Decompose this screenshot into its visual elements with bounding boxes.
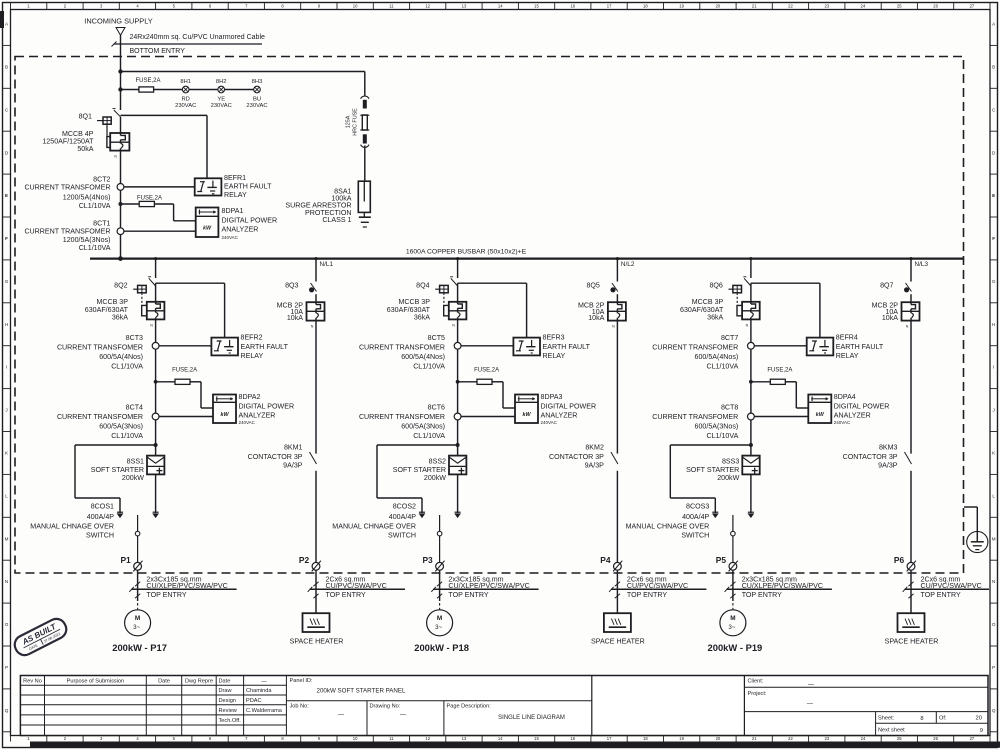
svg-text:FUSE,2A: FUSE,2A (172, 367, 197, 373)
svg-text:YE: YE (217, 97, 225, 103)
svg-text:Rev No: Rev No (23, 678, 42, 684)
svg-text:N/L2: N/L2 (621, 261, 635, 268)
svg-text:600/5A(3Nos): 600/5A(3Nos) (401, 423, 445, 431)
svg-text:CU/PVC/SWA/PVC: CU/PVC/SWA/PVC (627, 582, 688, 590)
svg-text:8Q7: 8Q7 (880, 282, 893, 290)
svg-text:P6: P6 (894, 555, 905, 565)
svg-text:50kA: 50kA (77, 145, 93, 153)
svg-text:CL1/10VA: CL1/10VA (79, 244, 111, 252)
svg-text:600/5A(4Nos): 600/5A(4Nos) (401, 353, 445, 361)
svg-text:CL1/10VA: CL1/10VA (413, 363, 445, 371)
svg-text:Tech.Off.: Tech.Off. (219, 718, 242, 724)
svg-text:24: 24 (861, 736, 866, 741)
svg-text:200kW - P17: 200kW - P17 (112, 642, 167, 653)
svg-text:P3: P3 (422, 555, 433, 565)
svg-text:Sheet:: Sheet: (878, 715, 895, 721)
svg-text:F: F (5, 236, 8, 241)
svg-text:B: B (5, 64, 8, 69)
svg-text:N: N (311, 325, 314, 329)
svg-text:P4: P4 (600, 555, 611, 565)
svg-text:36kA: 36kA (707, 314, 723, 322)
svg-text:TOP ENTRY: TOP ENTRY (448, 591, 488, 599)
svg-text:L: L (5, 493, 8, 498)
svg-text:SPACE HEATER: SPACE HEATER (290, 637, 344, 645)
svg-text:8DPA3: 8DPA3 (541, 393, 563, 401)
svg-text:240VAC: 240VAC (222, 235, 239, 240)
svg-text:M: M (5, 536, 9, 541)
svg-text:Project:: Project: (748, 691, 767, 697)
svg-text:8EFR4: 8EFR4 (836, 333, 858, 341)
svg-text:DIGITAL POWER: DIGITAL POWER (222, 217, 278, 225)
svg-text:HRC FUSE: HRC FUSE (353, 108, 359, 136)
svg-text:22: 22 (788, 736, 793, 741)
svg-text:13: 13 (462, 736, 467, 741)
svg-text:27: 27 (970, 4, 975, 9)
svg-text:E: E (5, 193, 8, 198)
svg-text:N: N (612, 325, 615, 329)
svg-text:25: 25 (897, 736, 902, 741)
svg-text:8: 8 (920, 716, 923, 722)
svg-text:M: M (437, 615, 442, 622)
svg-text:Client:: Client: (748, 679, 764, 685)
svg-text:125A: 125A (346, 115, 352, 128)
svg-text:1200/5A(4Nos): 1200/5A(4Nos) (63, 193, 111, 201)
svg-text:SOFT STARTER: SOFT STARTER (393, 466, 446, 474)
svg-text:CONTACTOR 3P: CONTACTOR 3P (248, 453, 303, 461)
svg-text:CURRENT TRANSFOMER: CURRENT TRANSFOMER (24, 228, 110, 236)
svg-text:—: — (338, 712, 345, 719)
svg-text:9: 9 (980, 728, 983, 734)
svg-text:26: 26 (933, 4, 938, 9)
svg-text:240VAC: 240VAC (834, 420, 851, 425)
svg-text:CURRENT TRANSFOMER: CURRENT TRANSFOMER (57, 344, 143, 352)
svg-text:26: 26 (933, 736, 938, 741)
svg-text:O: O (5, 622, 9, 627)
svg-text:200kW: 200kW (717, 474, 739, 482)
svg-text:FUSE,2A: FUSE,2A (474, 367, 499, 373)
svg-text:8EFR1: 8EFR1 (224, 174, 246, 182)
svg-text:CURRENT TRANSFOMER: CURRENT TRANSFOMER (24, 184, 110, 192)
svg-text:CU/XLPE/PVC/SWA/PVC: CU/XLPE/PVC/SWA/PVC (146, 582, 227, 590)
svg-text:SPACE HEATER: SPACE HEATER (591, 637, 645, 645)
svg-text:SWITCH: SWITCH (388, 532, 416, 540)
svg-text:ANALYZER: ANALYZER (541, 412, 578, 420)
svg-text:Chaminda: Chaminda (246, 688, 272, 694)
svg-text:INCOMING SUPPLY: INCOMING SUPPLY (84, 17, 153, 26)
svg-text:9A/3P: 9A/3P (878, 461, 898, 469)
svg-text:P2: P2 (299, 555, 310, 565)
svg-text:200kW SOFT STARTER PANEL: 200kW SOFT STARTER PANEL (317, 688, 406, 695)
svg-text:MANUAL CHNAGE OVER: MANUAL CHNAGE OVER (626, 523, 710, 531)
svg-text:Purpose of Submission: Purpose of Submission (67, 678, 125, 684)
svg-text:TOP ENTRY: TOP ENTRY (742, 591, 782, 599)
svg-text:8COS2: 8COS2 (393, 503, 416, 511)
svg-text:16: 16 (570, 4, 575, 9)
svg-text:CONTACTOR 3P: CONTACTOR 3P (843, 453, 898, 461)
svg-text:11: 11 (389, 736, 394, 741)
svg-text:CONTACTOR 3P: CONTACTOR 3P (549, 453, 604, 461)
svg-text:36kA: 36kA (414, 314, 430, 322)
svg-text:BOTTOM ENTRY: BOTTOM ENTRY (130, 48, 186, 55)
svg-text:400A/4P: 400A/4P (682, 513, 709, 521)
svg-text:—: — (400, 712, 407, 719)
svg-text:Page Description:: Page Description: (447, 704, 492, 710)
svg-text:EARTH FAULT: EARTH FAULT (241, 343, 289, 351)
svg-text:18: 18 (643, 736, 648, 741)
svg-text:600/5A(4Nos): 600/5A(4Nos) (99, 353, 143, 361)
svg-text:Drawing No:: Drawing No: (370, 704, 401, 710)
svg-text:TOP ENTRY: TOP ENTRY (921, 591, 961, 599)
svg-text:—: — (807, 701, 814, 708)
svg-text:SOFT STARTER: SOFT STARTER (686, 466, 739, 474)
svg-text:ANALYZER: ANALYZER (239, 412, 276, 420)
svg-text:ANALYZER: ANALYZER (834, 412, 871, 420)
svg-text:27: 27 (970, 736, 975, 741)
svg-text:Next sheet: Next sheet (878, 728, 905, 734)
svg-text:Q: Q (5, 708, 9, 713)
svg-text:N: N (992, 579, 995, 584)
svg-text:Date: Date (219, 678, 231, 684)
svg-text:240VAC: 240VAC (541, 420, 558, 425)
svg-text:kW: kW (816, 412, 825, 418)
svg-text:M: M (730, 615, 735, 622)
svg-text:Draw: Draw (219, 688, 233, 694)
svg-text:PDAC: PDAC (246, 698, 262, 704)
svg-text:DIGITAL POWER: DIGITAL POWER (834, 402, 890, 410)
svg-text:Q: Q (992, 708, 996, 713)
svg-text:CL1/10VA: CL1/10VA (706, 432, 738, 440)
svg-text:O: O (992, 622, 996, 627)
svg-text:20: 20 (716, 4, 721, 9)
svg-text:CLASS 1: CLASS 1 (322, 216, 351, 224)
svg-text:CU/PVC/SWA/PVC: CU/PVC/SWA/PVC (921, 582, 982, 590)
svg-text:8Q5: 8Q5 (586, 282, 599, 290)
svg-text:H: H (5, 322, 8, 327)
svg-text:19: 19 (679, 736, 684, 741)
svg-text:J: J (5, 408, 7, 413)
svg-text:MANUAL CHNAGE OVER: MANUAL CHNAGE OVER (30, 523, 114, 531)
svg-text:8CT8: 8CT8 (721, 404, 738, 412)
svg-text:1600A COPPER BUSBAR (50x10x2)+: 1600A COPPER BUSBAR (50x10x2)+E (406, 249, 527, 256)
svg-text:Of:: Of: (939, 715, 947, 721)
svg-text:N: N (5, 579, 8, 584)
svg-text:3~: 3~ (728, 624, 735, 631)
svg-text:kW: kW (220, 412, 229, 418)
svg-text:RELAY: RELAY (543, 352, 566, 360)
svg-text:FUSE,2A: FUSE,2A (767, 367, 792, 373)
svg-text:8DPA4: 8DPA4 (834, 393, 856, 401)
svg-text:600/5A(3Nos): 600/5A(3Nos) (99, 423, 143, 431)
svg-text:CURRENT TRANSFOMER: CURRENT TRANSFOMER (652, 413, 738, 421)
svg-text:CURRENT TRANSFOMER: CURRENT TRANSFOMER (652, 344, 738, 352)
svg-text:G: G (5, 279, 9, 284)
svg-text:SOFT STARTER: SOFT STARTER (91, 466, 144, 474)
svg-text:CURRENT TRANSFOMER: CURRENT TRANSFOMER (359, 413, 445, 421)
svg-text:13: 13 (462, 4, 467, 9)
svg-text:200kW - P18: 200kW - P18 (414, 642, 469, 653)
svg-text:9A/3P: 9A/3P (283, 461, 303, 469)
svg-text:EARTH FAULT: EARTH FAULT (836, 343, 884, 351)
svg-text:12: 12 (425, 736, 430, 741)
svg-text:kW: kW (522, 412, 531, 418)
svg-text:8Q6: 8Q6 (709, 282, 722, 290)
svg-text:TOP ENTRY: TOP ENTRY (326, 591, 366, 599)
svg-text:Review: Review (219, 708, 238, 714)
svg-text:9A/3P: 9A/3P (585, 461, 605, 469)
svg-text:SPACE HEATER: SPACE HEATER (885, 637, 939, 645)
svg-text:B: B (992, 64, 995, 69)
svg-text:P: P (992, 665, 995, 670)
svg-text:19: 19 (679, 4, 684, 9)
svg-text:8SS2: 8SS2 (429, 457, 446, 465)
svg-text:8CT2: 8CT2 (93, 176, 110, 184)
svg-text:P5: P5 (716, 555, 727, 565)
svg-text:P1: P1 (120, 555, 131, 565)
svg-text:200kW: 200kW (122, 474, 144, 482)
svg-text:CL1/10VA: CL1/10VA (79, 202, 111, 210)
svg-text:1200/5A(3Nos): 1200/5A(3Nos) (63, 236, 111, 244)
svg-text:230VAC: 230VAC (246, 103, 267, 109)
svg-text:400A/4P: 400A/4P (389, 513, 416, 521)
svg-text:23: 23 (824, 736, 829, 741)
svg-text:16: 16 (570, 736, 575, 741)
svg-text:H: H (992, 322, 995, 327)
svg-text:EARTH FAULT: EARTH FAULT (224, 183, 272, 191)
svg-text:CURRENT TRANSFOMER: CURRENT TRANSFOMER (57, 413, 143, 421)
svg-text:8COS1: 8COS1 (91, 503, 114, 511)
svg-text:Dwg Repre: Dwg Repre (185, 678, 213, 684)
svg-text:8CT6: 8CT6 (428, 404, 445, 412)
svg-text:8KM1: 8KM1 (284, 444, 303, 452)
svg-text:CU/XLPE/PVC/SWA/PVC: CU/XLPE/PVC/SWA/PVC (742, 582, 823, 590)
svg-text:14: 14 (498, 4, 503, 9)
svg-text:10: 10 (353, 736, 358, 741)
svg-text:SWITCH: SWITCH (86, 532, 114, 540)
svg-text:17: 17 (607, 736, 612, 741)
svg-text:N/L1: N/L1 (320, 261, 334, 268)
svg-text:BU: BU (253, 97, 261, 103)
svg-text:M: M (135, 615, 140, 622)
svg-text:230VAC: 230VAC (211, 103, 232, 109)
svg-text:10: 10 (353, 4, 358, 9)
svg-text:RELAY: RELAY (224, 191, 247, 199)
svg-text:M: M (992, 536, 996, 541)
svg-text:8SS3: 8SS3 (722, 457, 739, 465)
svg-text:P: P (5, 665, 8, 670)
svg-text:Panel ID:: Panel ID: (290, 678, 313, 684)
svg-text:G: G (992, 279, 996, 284)
svg-text:8CT5: 8CT5 (428, 334, 445, 342)
svg-text:8H1: 8H1 (180, 79, 191, 85)
svg-text:8SS1: 8SS1 (127, 457, 144, 465)
svg-text:RELAY: RELAY (836, 352, 859, 360)
svg-text:11: 11 (389, 4, 394, 9)
svg-text:36kA: 36kA (112, 314, 128, 322)
svg-text:RD: RD (182, 97, 190, 103)
svg-text:F: F (992, 236, 995, 241)
svg-text:200kW: 200kW (424, 474, 446, 482)
svg-text:24Rx240mm sq. Cu/PVC Unarmored: 24Rx240mm sq. Cu/PVC Unarmored Cable (130, 34, 265, 41)
svg-text:8CT4: 8CT4 (126, 404, 143, 412)
svg-text:DIGITAL POWER: DIGITAL POWER (541, 402, 597, 410)
svg-text:8Q1: 8Q1 (79, 113, 92, 121)
svg-text:FUSE,2A: FUSE,2A (135, 78, 160, 84)
svg-text:8DPA1: 8DPA1 (222, 207, 244, 215)
svg-text:N: N (150, 323, 153, 327)
svg-text:8Q2: 8Q2 (114, 282, 127, 290)
svg-text:8CT3: 8CT3 (126, 334, 143, 342)
svg-text:8H3: 8H3 (252, 79, 263, 85)
svg-text:CL1/10VA: CL1/10VA (111, 363, 143, 371)
svg-text:FUSE,2A: FUSE,2A (137, 195, 162, 201)
svg-text:10kA: 10kA (588, 314, 604, 322)
svg-text:J: J (993, 408, 995, 413)
svg-text:8COS3: 8COS3 (686, 503, 709, 511)
svg-text:MCCB 3P: MCCB 3P (398, 298, 430, 306)
svg-text:CURRENT TRANSFOMER: CURRENT TRANSFOMER (359, 344, 445, 352)
svg-text:—: — (261, 678, 267, 684)
svg-text:3~: 3~ (133, 624, 140, 631)
svg-text:21: 21 (752, 736, 757, 741)
svg-text:25: 25 (897, 4, 902, 9)
svg-text:24: 24 (861, 4, 866, 9)
svg-text:230VAC: 230VAC (175, 103, 196, 109)
svg-text:N: N (452, 323, 455, 327)
svg-text:8EFR3: 8EFR3 (543, 333, 565, 341)
svg-text:N: N (906, 325, 909, 329)
svg-text:CL1/10VA: CL1/10VA (706, 363, 738, 371)
svg-text:20: 20 (976, 716, 982, 722)
svg-text:I: I (6, 365, 7, 370)
svg-text:TOP ENTRY: TOP ENTRY (146, 591, 186, 599)
svg-text:600/5A(3Nos): 600/5A(3Nos) (695, 423, 739, 431)
svg-text:DIGITAL POWER: DIGITAL POWER (239, 402, 295, 410)
svg-text:8DPA2: 8DPA2 (239, 393, 261, 401)
svg-text:8Q4: 8Q4 (416, 282, 429, 290)
svg-text:N/L3: N/L3 (915, 261, 929, 268)
svg-text:CL1/10VA: CL1/10VA (111, 432, 143, 440)
svg-text:Design: Design (219, 698, 236, 704)
svg-text:ANALYZER: ANALYZER (222, 226, 259, 234)
svg-text:E: E (992, 193, 995, 198)
svg-text:8EFR2: 8EFR2 (241, 333, 263, 341)
svg-text:18: 18 (643, 4, 648, 9)
svg-text:200kW - P19: 200kW - P19 (708, 642, 763, 653)
svg-text:SINGLE LINE DIAGRAM: SINGLE LINE DIAGRAM (498, 715, 565, 721)
svg-text:21: 21 (752, 4, 757, 9)
svg-text:3~: 3~ (435, 624, 442, 631)
svg-text:10kA: 10kA (287, 314, 303, 322)
svg-text:RELAY: RELAY (241, 352, 264, 360)
svg-text:TOP ENTRY: TOP ENTRY (627, 591, 667, 599)
svg-text:CU/XLPE/PVC/SWA/PVC: CU/XLPE/PVC/SWA/PVC (448, 582, 529, 590)
svg-text:CU/PVC/SWA/PVC: CU/PVC/SWA/PVC (326, 582, 387, 590)
svg-text:8H2: 8H2 (216, 79, 227, 85)
svg-text:12: 12 (425, 4, 430, 9)
svg-text:N: N (114, 155, 117, 159)
svg-text:20: 20 (716, 736, 721, 741)
svg-text:15: 15 (534, 4, 539, 9)
svg-text:400A/4P: 400A/4P (87, 513, 114, 521)
svg-text:I: I (993, 365, 994, 370)
svg-text:8CT7: 8CT7 (721, 334, 738, 342)
svg-text:22: 22 (788, 4, 793, 9)
svg-text:600/5A(4Nos): 600/5A(4Nos) (695, 353, 739, 361)
svg-text:10kA: 10kA (882, 314, 898, 322)
svg-text:15: 15 (534, 736, 539, 741)
svg-text:23: 23 (824, 4, 829, 9)
svg-text:Job No:: Job No: (290, 704, 310, 710)
svg-text:SWITCH: SWITCH (681, 532, 709, 540)
svg-text:kW: kW (203, 225, 212, 231)
svg-text:EARTH FAULT: EARTH FAULT (543, 343, 591, 351)
svg-text:MANUAL CHNAGE OVER: MANUAL CHNAGE OVER (332, 523, 416, 531)
svg-text:17: 17 (607, 4, 612, 9)
svg-text:L: L (992, 493, 995, 498)
svg-text:8CT1: 8CT1 (93, 220, 110, 228)
svg-text:C.Walderrama: C.Walderrama (246, 708, 283, 714)
svg-text:MCCB 3P: MCCB 3P (692, 298, 724, 306)
svg-text:8KM3: 8KM3 (879, 444, 898, 452)
svg-text:N: N (746, 323, 749, 327)
svg-text:Date: Date (158, 678, 170, 684)
svg-text:MCCB 3P: MCCB 3P (96, 298, 128, 306)
svg-text:8KM2: 8KM2 (585, 444, 604, 452)
svg-text:14: 14 (498, 736, 503, 741)
svg-text:240VAC: 240VAC (239, 420, 256, 425)
svg-text:CL1/10VA: CL1/10VA (413, 432, 445, 440)
svg-text:8Q3: 8Q3 (285, 282, 298, 290)
